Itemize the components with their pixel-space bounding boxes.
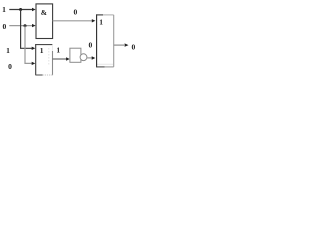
OR gate U2 bottom edge (dark left part) <box>36 74 43 76</box>
NOT gate U3 inversion bubble <box>80 54 87 61</box>
NOT gate U3 box (gray) <box>70 48 81 62</box>
arrowhead into OR1 input b <box>32 62 36 65</box>
OR gate U4 (right) left edge <box>96 14 98 67</box>
OR gate U2 inner dotted line <box>48 48 50 66</box>
arrowhead into OR1 input a <box>32 47 36 50</box>
svg-text:0: 0 <box>132 43 136 52</box>
svg-text:1: 1 <box>56 45 60 54</box>
svg-text:0: 0 <box>74 8 78 17</box>
junction dot on IN2 wire <box>24 24 27 27</box>
wire from IN1 to AND gate input a <box>9 9 32 11</box>
OR gate U2 right edge (very light, upper part) <box>52 45 54 51</box>
wire OR2 output (value 0, gray) <box>114 44 124 46</box>
junction dot on IN1 wire <box>19 8 22 11</box>
wire from IN2 to AND gate input b (value 0, gray) <box>9 25 32 27</box>
svg-text:1: 1 <box>6 46 10 55</box>
svg-text:0: 0 <box>3 22 7 31</box>
arrowhead into OR2 input a <box>92 19 96 22</box>
AND gate U1 box <box>36 4 53 39</box>
OR gate U2 (bottom) left edge <box>35 44 37 75</box>
svg-text:0: 0 <box>8 62 12 71</box>
OR gate U4 bottom edge (lighter right part) <box>105 66 114 68</box>
svg-text:&: & <box>41 8 47 17</box>
OR gate U4 top edge (dark left part) <box>96 14 103 16</box>
wire from IN1 junction down and into OR1 input a <box>21 10 33 49</box>
arrowhead into AND input a <box>32 8 36 11</box>
OR gate U2 right edge (light, lower part) <box>52 51 54 75</box>
arrowhead into NOT input <box>66 57 70 60</box>
svg-text:1: 1 <box>2 5 6 14</box>
svg-text:1: 1 <box>40 46 44 55</box>
OR gate U2 bottom edge (light right part) <box>43 74 54 76</box>
OR gate U4 top edge (dotted right part) <box>103 14 114 16</box>
wire NOT output to OR2 input b (value 0, gray) <box>87 57 93 59</box>
wire OR1 output to NOT gate input (value 1) <box>53 58 67 60</box>
arrowhead into AND input b <box>32 24 36 27</box>
wire from IN2 junction down and into OR1 input b (value 0, gray) <box>25 26 33 64</box>
wire AND output to OR2 input a (value 0, gray) <box>53 20 93 22</box>
arrowhead into OR2 input b <box>92 56 96 59</box>
OR gate U2 top edge <box>35 44 52 46</box>
OR gate U4 right edge (light) <box>113 15 115 67</box>
svg-text:1: 1 <box>99 17 103 26</box>
svg-text:0: 0 <box>89 40 93 49</box>
OR gate U4 bottom edge (dark left part) <box>97 66 105 68</box>
arrowhead on final output <box>125 43 129 46</box>
OR gate U4 inner dotted line <box>98 63 114 65</box>
